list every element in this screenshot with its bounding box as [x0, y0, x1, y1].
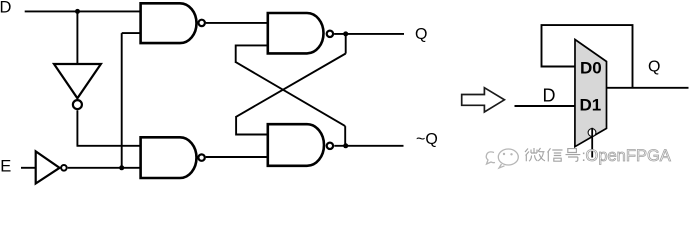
svg-text:D0: D0 — [580, 59, 602, 78]
wire G2 output — [334, 33, 404, 35]
svg-text:Q: Q — [648, 59, 660, 76]
wire bend into G4 input 1 — [236, 116, 268, 135]
watermark icon eyes — [503, 153, 505, 155]
watermark text hao (drawn) — [566, 149, 581, 162]
wire E junction up — [121, 33, 123, 168]
NAND gate G3 (bottom left) — [141, 137, 197, 178]
svg-text:OpenFPGA: OpenFPGA — [586, 147, 671, 165]
NAND gate G2 (top right) — [268, 13, 324, 53]
wire G1 output to G2 — [206, 22, 268, 24]
svg-text:D1: D1 — [580, 96, 602, 115]
NAND gate G2 bubble — [327, 31, 333, 37]
wire cross diagonal Q to G4 — [236, 54, 346, 117]
wire Dbar to gate U3 input 1 — [77, 145, 141, 147]
NAND gate G1 bubble — [199, 20, 205, 26]
svg-text:D: D — [543, 86, 556, 106]
svg-text:D: D — [0, 0, 12, 17]
wire bend into G2 input 2 — [236, 45, 268, 63]
inverter U2 bubble — [61, 165, 67, 171]
node D junction — [75, 9, 80, 14]
wire inverter U1 output down — [76, 110, 78, 146]
watermark icon (chat faces) — [486, 149, 518, 168]
node Qbar junction — [343, 143, 348, 148]
watermark text wei (drawn) — [525, 148, 545, 161]
svg-text:E: E — [0, 157, 11, 175]
svg-text:Q: Q — [415, 26, 427, 43]
wire D to mux D1 — [515, 105, 575, 107]
wire Qbar junction up — [344, 126, 346, 146]
watermark text xin (drawn) — [548, 148, 563, 161]
node Q junction — [343, 31, 348, 36]
wire D input horizontal — [25, 10, 141, 12]
mux U5 body — [575, 40, 607, 147]
inverter U2 (E buffer, pointing right) — [36, 151, 60, 183]
arrow (implies) — [462, 88, 505, 112]
wire Q junction down — [345, 34, 347, 54]
wire feedback loop — [542, 25, 633, 88]
node E junction — [119, 165, 124, 170]
NAND gate G1 (top left) — [141, 3, 197, 43]
wire E input stub — [21, 167, 36, 169]
wire E line to gate U3 input 2 — [68, 167, 141, 169]
svg-text:~Q: ~Q — [416, 131, 438, 148]
wire cross diagonal Qbar to G2 — [236, 62, 346, 126]
wire G3 output to G4 input 2 — [206, 156, 268, 158]
NAND gate G3 bubble — [198, 154, 204, 160]
inverter U1 bubble — [73, 100, 82, 109]
wire D junction down to inverter — [76, 11, 78, 64]
wire G4 output — [334, 145, 403, 147]
wire mux select down — [591, 128, 593, 158]
NAND gate G4 bubble — [327, 143, 333, 149]
inverter U1 (D inverter, pointing down) — [54, 64, 101, 98]
NAND gate G4 (bottom right) — [268, 124, 324, 166]
wire E up to gate U1 input 2 — [122, 32, 141, 34]
mux select bubble — [588, 129, 596, 137]
wire mux output — [607, 87, 689, 89]
